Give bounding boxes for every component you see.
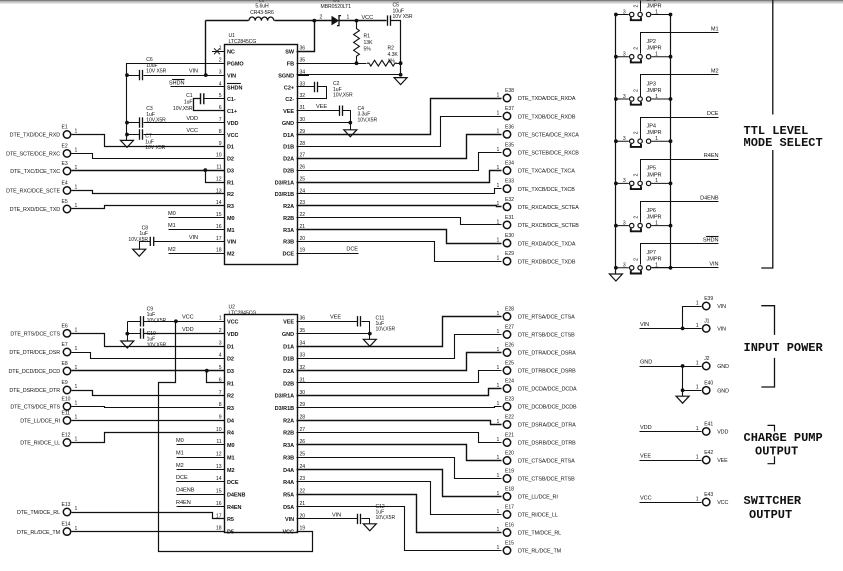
U1 pin 16 M1	[212, 224, 235, 234]
wire U2 D2A to E26	[297, 353, 502, 371]
svg-text:INPUT POWER: INPUT POWER	[744, 341, 824, 355]
terminal E31	[497, 215, 580, 229]
svg-text:GND: GND	[640, 359, 652, 365]
svg-text:VIN: VIN	[227, 73, 236, 79]
svg-text:R5: R5	[227, 517, 234, 523]
U1 pin 6 C1+	[212, 105, 237, 115]
svg-text:JP7: JP7	[647, 250, 657, 256]
wire C9 to U2 VCC pin1	[144, 321, 225, 323]
wire U1 D2B to E35	[297, 153, 502, 171]
terminal E20	[497, 451, 576, 465]
svg-text:D1A: D1A	[283, 344, 294, 350]
wire SHDN to U1 pin 4	[171, 86, 225, 88]
jumper JP4 JMPR	[616, 124, 671, 147]
wire U2 D3/R1A to E24	[297, 389, 502, 396]
svg-text:M0: M0	[168, 211, 176, 217]
terminal E42	[696, 450, 728, 464]
terminal E36	[497, 124, 580, 138]
terminal E26	[497, 343, 577, 357]
terminal E30	[497, 233, 576, 247]
wire U2 GND	[297, 333, 370, 335]
net label D4ENB (JP6)	[700, 195, 719, 201]
net label VIN (U2 pin20)	[332, 512, 341, 518]
svg-text:SW: SW	[285, 50, 295, 56]
wire E5 to U1 R3	[72, 206, 225, 209]
svg-text:D1: D1	[227, 344, 234, 350]
U2 pin 25 R3B	[283, 452, 309, 462]
svg-text:1: 1	[497, 92, 500, 98]
svg-text:VCC: VCC	[227, 320, 239, 326]
wire JP5 pin2 R4EN	[641, 160, 719, 181]
svg-text:D2B: D2B	[283, 381, 294, 387]
svg-text:VCC: VCC	[717, 500, 728, 506]
svg-text:R3A: R3A	[283, 228, 294, 234]
svg-text:DTE_LL/DCE_RI: DTE_LL/DCE_RI	[518, 495, 558, 501]
svg-text:1: 1	[75, 415, 78, 421]
U2 pin 28 R2A	[283, 415, 309, 425]
svg-text:1: 1	[696, 323, 699, 329]
wire U1 D1B to E37	[297, 117, 502, 147]
svg-text:D5A: D5A	[283, 505, 294, 511]
U1 pin 24 D3/R1B	[275, 188, 309, 198]
svg-text:LTC2845CG: LTC2845CG	[229, 39, 257, 45]
terminal E23	[497, 397, 578, 411]
svg-text:20: 20	[300, 236, 306, 242]
ground (U2 GND)	[363, 339, 376, 346]
U2 pin 27 R2B	[283, 427, 309, 437]
svg-text:E5: E5	[62, 199, 68, 205]
svg-text:28: 28	[300, 415, 306, 421]
net label VIN (U1 pin17)	[189, 235, 198, 241]
svg-text:DTE_RI/DCE_LL: DTE_RI/DCE_LL	[518, 513, 558, 519]
svg-text:22: 22	[300, 489, 306, 495]
net label M0 (U1)	[168, 211, 176, 217]
wire M2 to U2	[177, 469, 225, 471]
terminal E21	[497, 433, 577, 447]
svg-text:E4: E4	[62, 180, 68, 186]
svg-text:3: 3	[219, 340, 222, 346]
terminal E24	[497, 379, 578, 393]
junction rail/C3	[125, 121, 129, 125]
terminal E29	[497, 251, 576, 265]
svg-text:35: 35	[300, 58, 306, 64]
U2 pin 17 R5	[212, 513, 234, 523]
wire E13 to U2 R5	[72, 513, 225, 519]
terminal E25	[497, 361, 577, 375]
svg-text:JMPR: JMPR	[647, 130, 662, 136]
U2 pin 20 VIN	[285, 513, 309, 523]
capacitor C3	[140, 106, 167, 128]
wire C11 to GND node	[362, 322, 370, 340]
svg-text:VIN: VIN	[640, 322, 649, 328]
svg-text:4: 4	[219, 353, 222, 359]
svg-text:VDD: VDD	[717, 430, 728, 436]
svg-text:2: 2	[320, 15, 323, 21]
U1 pin 31 VEE	[283, 105, 309, 115]
wire VIN input to J1	[640, 328, 702, 330]
connector J2	[696, 356, 729, 370]
ground (bypass rail)	[121, 140, 134, 147]
U2 pin 23 R4A	[283, 476, 309, 486]
U2 pin 26 R3A	[283, 439, 309, 449]
net label VIN (U1 pin3)	[189, 68, 198, 74]
svg-text:DCE: DCE	[227, 480, 239, 486]
wire VEE to E42	[640, 460, 702, 462]
svg-text:28: 28	[300, 141, 306, 147]
wire U1 D2A to E36	[297, 135, 502, 159]
svg-text:SGND: SGND	[278, 73, 294, 79]
svg-text:E35: E35	[505, 142, 514, 148]
junction U2 D3/R1 tie	[205, 369, 209, 373]
U1 pin 8 VCC	[212, 129, 239, 139]
U2 pin 6 R1	[212, 377, 234, 387]
wire C1 to U1 C1+	[194, 99, 225, 111]
junction VCC node	[355, 19, 359, 23]
svg-text:DTE_DSRA/DCE_DTRA: DTE_DSRA/DCE_DTRA	[518, 423, 576, 429]
U1 pin 21 R3A	[283, 224, 309, 234]
svg-text:JP4: JP4	[647, 124, 657, 130]
svg-text:VDD: VDD	[227, 332, 239, 338]
U1 pin 10 D2	[212, 153, 234, 163]
U2 pin 10 R4	[212, 427, 235, 437]
svg-text:M1: M1	[227, 228, 235, 234]
wire E6 to U2 D1	[72, 334, 225, 347]
wire U2 D2B to E25	[297, 371, 502, 383]
svg-text:VIN: VIN	[709, 261, 718, 267]
net label VCC (switcher out)	[362, 15, 374, 21]
U2 pin 16 R4EN	[212, 501, 242, 511]
wire E9 to U2 R2	[72, 391, 225, 396]
U2 pin 13 M2	[212, 464, 235, 474]
wire M2 to U1	[169, 253, 225, 255]
svg-text:3: 3	[623, 136, 626, 142]
wire VCC to E43	[640, 502, 702, 504]
svg-text:D3/R1B: D3/R1B	[275, 406, 294, 412]
svg-text:1: 1	[655, 136, 658, 142]
resistor R1	[354, 21, 373, 64]
svg-text:J2: J2	[704, 356, 709, 362]
svg-text:GND: GND	[717, 389, 729, 395]
svg-text:VEE: VEE	[283, 320, 294, 326]
junction JP3 pin1/rail	[669, 97, 673, 101]
svg-text:10: 10	[216, 153, 222, 159]
svg-text:5.6uH: 5.6uH	[255, 4, 269, 10]
svg-text:GND: GND	[282, 121, 294, 127]
svg-text:2: 2	[634, 173, 640, 176]
svg-text:JMPR: JMPR	[647, 88, 662, 94]
svg-text:10V X5R: 10V X5R	[146, 69, 166, 75]
net label D4ENB (U2)	[176, 488, 195, 494]
svg-text:D2B: D2B	[283, 168, 294, 174]
ground (C12)	[363, 524, 376, 531]
svg-text:R4EN: R4EN	[227, 505, 242, 511]
svg-text:CHARGE PUMP: CHARGE PUMP	[744, 431, 823, 445]
svg-text:M1: M1	[711, 26, 719, 32]
U1 pin 3 VIN	[212, 70, 236, 80]
svg-text:VCC: VCC	[186, 128, 198, 134]
svg-text:26: 26	[300, 165, 306, 171]
svg-text:VIN: VIN	[332, 512, 341, 518]
svg-text:DTE_TXDA/DCE_RXDA: DTE_TXDA/DCE_RXDA	[518, 96, 576, 102]
terminal E18	[497, 487, 558, 501]
terminal E10	[10, 396, 77, 410]
ground (input power)	[676, 396, 689, 403]
U1 pin 12 R1	[212, 176, 234, 186]
wire JP7 pin2 SHDN	[641, 244, 719, 265]
svg-text:R4A: R4A	[283, 480, 294, 486]
capacitor C12	[358, 504, 396, 524]
U2 pin 7 R2	[212, 390, 234, 400]
svg-text:E39: E39	[704, 296, 713, 302]
junction JP1 pin1/rail	[669, 13, 673, 17]
wire JP3 pin2 M2	[641, 75, 719, 97]
net label DCE (U1 pin19)	[346, 247, 358, 253]
wire GND drop	[682, 367, 684, 397]
svg-text:DCE: DCE	[346, 247, 358, 253]
junction rail/C7	[125, 133, 129, 137]
svg-text:R2: R2	[227, 394, 234, 400]
svg-text:E25: E25	[505, 361, 514, 367]
U1 pin 4 SHDN	[212, 81, 242, 91]
wire E1 to U1 D1	[72, 135, 225, 147]
svg-text:R3A: R3A	[283, 443, 294, 449]
svg-text:1: 1	[497, 238, 500, 244]
svg-text:3: 3	[623, 9, 626, 15]
U2 pin 2 VDD	[212, 328, 239, 338]
U1 pin 28 D1B	[283, 141, 309, 151]
junction VIN node	[204, 73, 208, 77]
wire JP7 pin1 VIN	[652, 267, 719, 269]
svg-text:D3/R1A: D3/R1A	[275, 180, 294, 186]
svg-text:1%: 1%	[388, 59, 396, 65]
junction JP7 pin1/rail	[669, 266, 673, 270]
wire L1 to diode D1	[275, 20, 315, 22]
svg-text:VIN: VIN	[189, 68, 198, 74]
svg-text:1: 1	[75, 148, 78, 154]
svg-text:DTE_TXC/DCE_TXC: DTE_TXC/DCE_TXC	[10, 169, 60, 175]
svg-text:E1: E1	[62, 125, 68, 131]
capacitor C1	[173, 93, 204, 112]
U2 pin 1 VCC	[212, 316, 239, 326]
svg-text:JP3: JP3	[647, 81, 657, 87]
wire rail to C9	[128, 321, 141, 323]
svg-text:D3/R1B: D3/R1B	[275, 192, 294, 198]
svg-text:JMPR: JMPR	[647, 3, 662, 9]
svg-text:18: 18	[216, 526, 222, 532]
svg-text:D4: D4	[227, 418, 235, 424]
svg-text:M0: M0	[227, 443, 235, 449]
svg-text:VDD: VDD	[182, 327, 194, 333]
wire U1 C2+ to C2	[297, 86, 315, 88]
terminal E2	[6, 143, 77, 157]
wire U1 DCE stub	[297, 253, 359, 255]
svg-text:19: 19	[300, 248, 306, 254]
svg-text:DTE_RXD/DCE_TXD: DTE_RXD/DCE_TXD	[10, 207, 61, 213]
svg-text:D4ENB: D4ENB	[700, 195, 719, 201]
U2 pin 29 D3/R1B	[275, 402, 309, 412]
svg-text:M1: M1	[168, 223, 176, 229]
wire U2 R5A to E16	[297, 495, 502, 533]
U2 pin 8 R3	[212, 402, 234, 412]
terminal E33	[497, 179, 576, 193]
svg-text:1: 1	[75, 346, 78, 352]
svg-text:SHDN: SHDN	[169, 81, 185, 87]
svg-text:FB: FB	[287, 62, 294, 68]
svg-text:D1: D1	[227, 145, 234, 151]
U1 pin 17 VIN	[212, 236, 236, 246]
junction GND/C11	[368, 332, 372, 336]
svg-text:M0: M0	[176, 438, 184, 444]
wire GND input to J2	[640, 366, 702, 368]
wire C3 to U1 VDD	[144, 122, 225, 124]
svg-text:C2-: C2-	[285, 97, 294, 103]
wire SW node to D1 anode	[315, 20, 332, 22]
U1 pin 14 R3	[212, 200, 234, 210]
svg-text:E18: E18	[505, 487, 514, 493]
wire jumper ground rail	[615, 15, 617, 275]
U2 pin 33 D1B	[283, 353, 309, 363]
U2 pin 11 M0	[212, 439, 235, 449]
svg-text:E28: E28	[505, 307, 514, 313]
svg-text:R2A: R2A	[283, 418, 294, 424]
svg-text:1: 1	[696, 360, 699, 366]
svg-text:DTE_CTSB/DCE_RTSB: DTE_CTSB/DCE_RTSB	[518, 477, 575, 483]
svg-text:D4ENB: D4ENB	[227, 493, 245, 499]
net label VEE (charge pump)	[640, 453, 651, 459]
wire U2 D1B to E27	[297, 335, 502, 359]
net label VDD (U2 pin2)	[182, 327, 194, 333]
net label R4EN (U2)	[176, 500, 191, 506]
wire E11 to U2 D4	[72, 420, 225, 422]
wire PGMO to bypass rail	[127, 64, 225, 141]
svg-text:34: 34	[300, 340, 306, 346]
svg-text:R2B: R2B	[283, 431, 294, 437]
junction SGND	[399, 73, 403, 77]
U1 pin 20 R3B	[283, 236, 309, 246]
wire U2 R3A to E20	[297, 445, 502, 461]
terminal E34	[497, 161, 576, 175]
wire DCE to U2	[177, 481, 225, 483]
wire C9/C10 ground rail	[127, 322, 129, 341]
U2 pin 14 DCE	[212, 476, 239, 486]
svg-text:17: 17	[216, 236, 222, 242]
U1 pin 11 D3	[212, 165, 234, 175]
svg-text:10V,X5R: 10V,X5R	[147, 318, 167, 324]
svg-text:VIN: VIN	[285, 517, 294, 523]
wire U1 VEE to C4	[297, 110, 340, 112]
wire C2 to U1 C2-	[297, 87, 327, 99]
svg-text:D1B: D1B	[283, 357, 294, 363]
svg-text:C1+: C1+	[227, 109, 237, 115]
svg-text:1: 1	[696, 454, 699, 460]
svg-text:15: 15	[216, 489, 222, 495]
U1 pin 1 no-connect X	[214, 48, 220, 54]
jumper JP3 JMPR	[616, 81, 671, 104]
svg-text:R3B: R3B	[283, 240, 294, 246]
svg-text:2: 2	[634, 5, 640, 8]
junction JP5 pin3/rail	[614, 182, 618, 186]
U1 pin 35 FB	[287, 58, 309, 68]
U1 pin 7 VDD	[212, 117, 239, 127]
U2 pin 19 VCC	[283, 526, 309, 536]
svg-text:36: 36	[300, 316, 306, 322]
jumper JP1 JMPR	[616, 0, 671, 20]
svg-text:E22: E22	[505, 415, 514, 421]
top scan edge strip	[0, 0, 843, 1]
svg-text:DTE_RL/DCE_TM: DTE_RL/DCE_TM	[518, 549, 562, 555]
wire C8 to U1 VIN pin 17	[154, 241, 225, 243]
svg-text:VCC: VCC	[227, 133, 239, 139]
U2 pin 22 R5A	[283, 489, 309, 499]
svg-text:VEE: VEE	[640, 453, 651, 459]
svg-text:OUTPUT: OUTPUT	[749, 508, 792, 522]
svg-text:VDD: VDD	[640, 425, 652, 431]
wire C5 to SGND rail	[391, 21, 401, 75]
U2 pin 18 D5	[212, 526, 234, 536]
wire M0 to U2	[177, 444, 225, 446]
connector J1	[696, 318, 726, 332]
terminal E27	[497, 325, 576, 339]
junction VCC loop tap	[174, 319, 178, 323]
net label M2 (JP3)	[711, 69, 719, 75]
U1 pin 18 M2	[212, 248, 235, 258]
junction rail/C6	[125, 73, 129, 77]
wire rail to C6	[127, 75, 140, 77]
wire E4 to U1 R2	[72, 191, 225, 194]
svg-text:DTE_DCDA/DCE_DCDA: DTE_DCDA/DCE_DCDA	[518, 387, 577, 393]
svg-text:1: 1	[347, 15, 350, 21]
U2 pin 5 D3	[212, 365, 234, 375]
junction GND/E40	[681, 364, 685, 368]
net label VCC (switcher)	[640, 495, 652, 501]
wire SW node to U1 pin 36	[297, 21, 315, 52]
U1 pin 13 R2	[212, 188, 234, 198]
svg-text:DTE_RXDB/DCE_TXDB: DTE_RXDB/DCE_TXDB	[518, 259, 576, 265]
capacitor C9	[141, 307, 167, 327]
svg-text:D3: D3	[227, 369, 234, 375]
wire U1 D3/R1A to E34	[297, 171, 502, 183]
U2 pin 9 D4	[212, 415, 235, 425]
wire E14 to U2 D5	[72, 531, 225, 533]
svg-text:10V,X5R: 10V,X5R	[333, 93, 353, 99]
svg-text:R3: R3	[227, 204, 234, 210]
junction JP2 pin3/rail	[614, 55, 618, 59]
svg-text:DTE_RTSB/DCE_CTSB: DTE_RTSB/DCE_CTSB	[518, 333, 575, 339]
svg-text:4.3K: 4.3K	[388, 52, 399, 58]
terminal E32	[497, 197, 580, 211]
svg-text:E33: E33	[505, 179, 514, 185]
svg-text:NC: NC	[227, 50, 235, 56]
svg-text:1: 1	[696, 300, 699, 306]
capacitor C11	[358, 315, 396, 332]
svg-text:J1: J1	[704, 318, 709, 324]
svg-text:D2A: D2A	[283, 369, 294, 375]
terminal E41	[696, 421, 729, 435]
terminal E38	[497, 88, 576, 102]
jumper JP7 JMPR	[616, 250, 671, 273]
wire U1 D3/R1B to E33	[297, 189, 502, 194]
svg-text:DTE_TXDB/DCE_RXDB: DTE_TXDB/DCE_RXDB	[518, 114, 576, 120]
wire R2 to VCC/SGND rail	[397, 63, 401, 65]
svg-text:R4EN: R4EN	[176, 500, 191, 506]
net label SHDN	[169, 80, 185, 87]
U1 pin 30 GND	[282, 117, 309, 127]
svg-text:E15: E15	[505, 541, 514, 547]
wire M1 to U1	[169, 229, 225, 231]
wire C12 to ground	[362, 519, 370, 524]
svg-text:E9: E9	[62, 380, 68, 386]
terminal E14	[17, 522, 78, 536]
